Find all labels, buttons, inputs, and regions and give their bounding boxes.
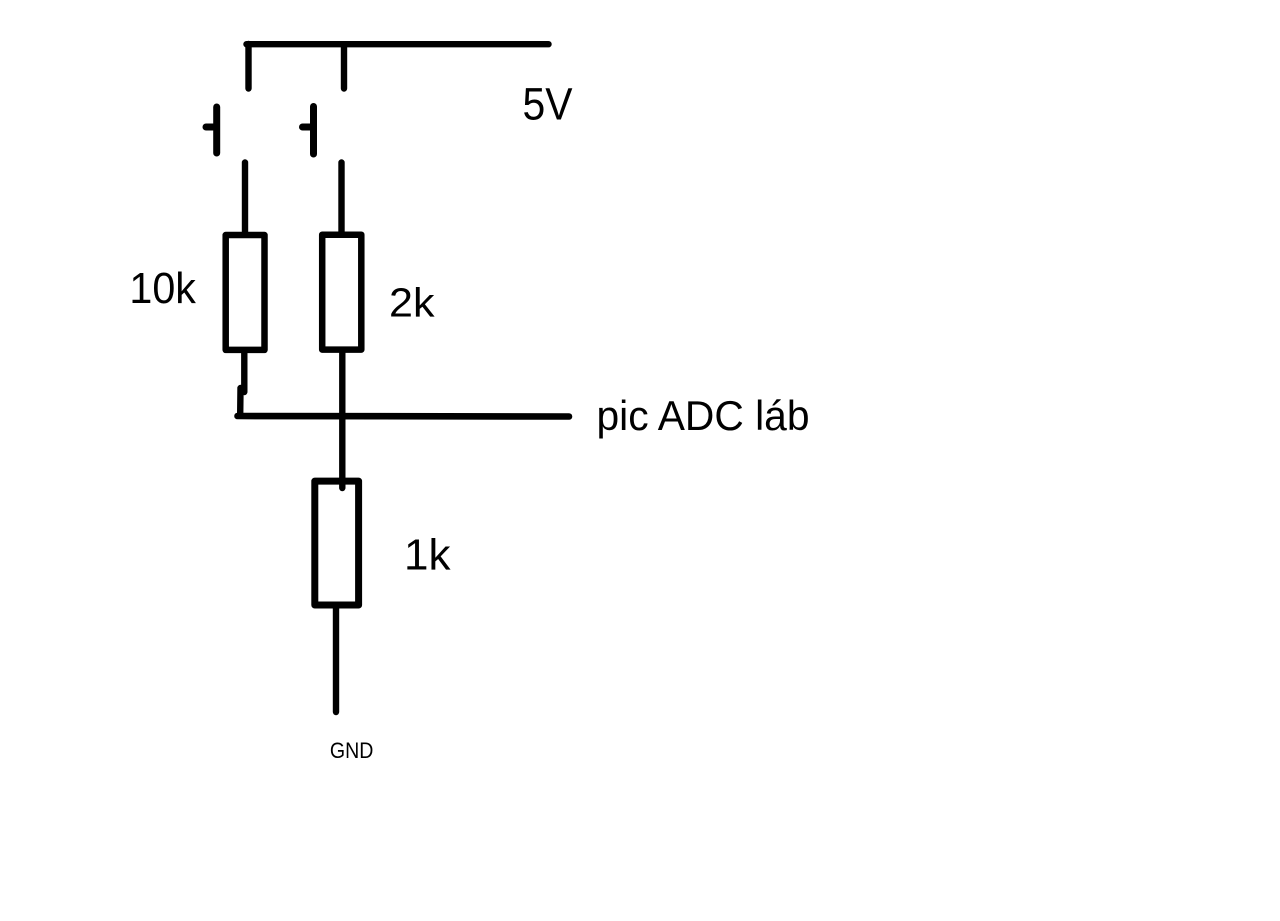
switch SW2 actuator tick: [303, 124, 311, 131]
wire right switch to resistor 2k: [338, 163, 344, 235]
svg-text:2k: 2k: [389, 280, 435, 326]
wire resistor 2k bottom through node into resistor 1k: [339, 351, 345, 488]
resistor R3 1k body: [315, 481, 359, 605]
svg-text:5V: 5V: [523, 79, 573, 130]
switch SW2 contact bar: [310, 107, 317, 155]
wire left switch to resistor 10k: [242, 163, 248, 235]
wire node horizontal to ADC: [238, 413, 570, 420]
svg-text:10k: 10k: [129, 265, 196, 313]
wire resistor 10k bottom to node: [240, 351, 244, 414]
svg-text:pic ADC láb: pic ADC láb: [597, 392, 810, 439]
wire resistor 1k to ground: [333, 607, 339, 712]
switch SW1 actuator tick: [206, 124, 214, 131]
svg-text:GND: GND: [330, 738, 374, 763]
wire stub from rail to left switch: [245, 44, 251, 89]
svg-text:1k: 1k: [404, 530, 451, 579]
wire stub from rail to right switch: [341, 46, 347, 89]
switch SW1 contact bar: [213, 107, 220, 153]
wire 5V rail: [247, 41, 549, 47]
resistor R2 2k body: [322, 235, 361, 350]
resistor R1 10k body: [226, 235, 265, 350]
